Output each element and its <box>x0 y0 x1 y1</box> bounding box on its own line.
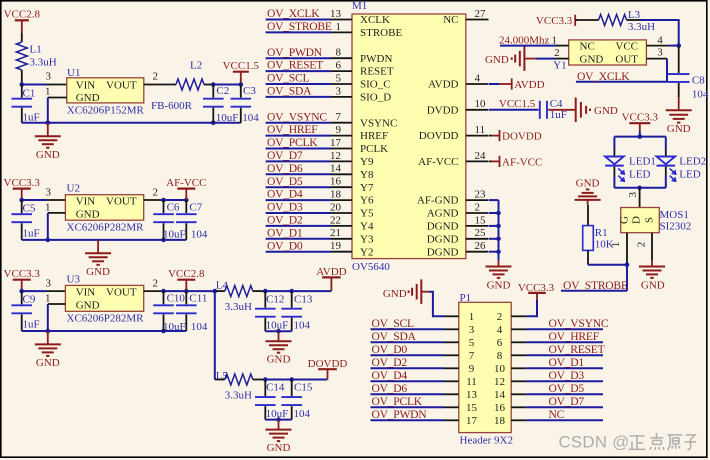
svg-text:OV_RESET: OV_RESET <box>549 343 605 356</box>
svg-text:2: 2 <box>497 311 503 323</box>
svg-text:10uF: 10uF <box>163 321 186 333</box>
svg-text:C10: C10 <box>167 293 186 305</box>
svg-text:OV_D3: OV_D3 <box>267 201 303 214</box>
svg-text:AVDD: AVDD <box>428 79 458 91</box>
svg-text:OV_PWDN: OV_PWDN <box>267 46 323 59</box>
svg-text:15: 15 <box>475 214 487 226</box>
svg-text:U1: U1 <box>67 67 80 79</box>
svg-text:VOUT: VOUT <box>106 195 137 207</box>
svg-text:OV_D5: OV_D5 <box>549 382 585 395</box>
svg-text:3.3uH: 3.3uH <box>628 21 655 33</box>
svg-text:3: 3 <box>627 191 639 197</box>
svg-text:1uF: 1uF <box>23 319 40 331</box>
svg-text:Y6: Y6 <box>360 195 374 207</box>
svg-text:VCC3.3: VCC3.3 <box>4 177 41 189</box>
svg-text:DOVDD: DOVDD <box>502 131 542 143</box>
svg-text:OV_SDA: OV_SDA <box>267 85 312 98</box>
svg-text:9: 9 <box>336 124 342 136</box>
svg-text:OV_SDA: OV_SDA <box>372 330 417 343</box>
svg-text:DGND: DGND <box>427 246 459 258</box>
svg-text:3: 3 <box>46 71 52 83</box>
svg-text:DVDD: DVDD <box>427 104 459 116</box>
svg-text:OV_VSYNC: OV_VSYNC <box>549 317 609 330</box>
svg-text:LED: LED <box>629 169 650 181</box>
svg-text:8: 8 <box>336 47 342 59</box>
svg-text:C5: C5 <box>23 202 36 214</box>
svg-text:10: 10 <box>475 98 487 110</box>
svg-text:5: 5 <box>336 72 342 84</box>
svg-text:STROBE: STROBE <box>360 27 402 39</box>
svg-text:GND: GND <box>267 354 291 366</box>
svg-text:U2: U2 <box>67 183 80 195</box>
svg-text:DOVDD: DOVDD <box>419 130 459 142</box>
svg-text:OV_D7: OV_D7 <box>549 395 585 408</box>
svg-text:1: 1 <box>45 85 51 97</box>
svg-text:M1: M1 <box>352 0 367 12</box>
svg-text:OV_D2: OV_D2 <box>372 356 408 369</box>
svg-text:Header 9X2: Header 9X2 <box>460 435 513 447</box>
svg-text:1uF: 1uF <box>23 228 40 240</box>
svg-text:AF-VCC: AF-VCC <box>502 156 542 168</box>
svg-text:XC6206P152MR: XC6206P152MR <box>67 105 145 117</box>
svg-text:RESET: RESET <box>360 66 394 78</box>
svg-text:4: 4 <box>657 34 663 46</box>
svg-text:GND: GND <box>76 208 100 220</box>
svg-text:GND: GND <box>86 266 110 278</box>
svg-text:6: 6 <box>336 60 342 72</box>
svg-text:VCC2.8: VCC2.8 <box>168 268 205 280</box>
svg-text:OV_D1: OV_D1 <box>549 356 585 369</box>
svg-text:24.000Mhz: 24.000Mhz <box>499 35 550 47</box>
svg-text:AVDD: AVDD <box>316 266 346 278</box>
svg-text:NC: NC <box>580 40 595 52</box>
svg-text:OV5640: OV5640 <box>352 261 390 273</box>
svg-text:OV_XCLK: OV_XCLK <box>267 7 320 20</box>
svg-text:10uF: 10uF <box>216 112 239 124</box>
svg-text:L1: L1 <box>30 44 42 56</box>
svg-text:HREF: HREF <box>360 130 388 142</box>
svg-text:C8: C8 <box>692 74 705 86</box>
svg-text:LED1: LED1 <box>629 156 656 168</box>
svg-text:C9: C9 <box>23 294 36 306</box>
svg-text:AVDD: AVDD <box>514 79 544 91</box>
svg-text:7: 7 <box>469 350 475 362</box>
svg-text:1: 1 <box>469 311 475 323</box>
svg-text:18: 18 <box>494 415 506 427</box>
svg-text:1uF: 1uF <box>23 111 40 123</box>
svg-text:10uF: 10uF <box>163 228 186 240</box>
svg-text:GND: GND <box>36 357 60 369</box>
svg-text:Y4: Y4 <box>360 221 374 233</box>
svg-text:P1: P1 <box>460 292 472 304</box>
svg-text:15: 15 <box>466 402 478 414</box>
svg-text:1: 1 <box>45 293 51 305</box>
svg-text:3.3uH: 3.3uH <box>225 301 252 313</box>
svg-text:OV_STROBE: OV_STROBE <box>267 20 332 33</box>
svg-text:1: 1 <box>45 201 51 213</box>
svg-text:VSYNC: VSYNC <box>360 117 397 129</box>
svg-text:NC: NC <box>549 408 565 421</box>
svg-text:OV_D2: OV_D2 <box>267 214 303 227</box>
svg-text:OV_D6: OV_D6 <box>372 382 408 395</box>
svg-text:OV_D3: OV_D3 <box>549 369 585 382</box>
svg-text:AF-VCC: AF-VCC <box>418 156 458 168</box>
svg-text:9: 9 <box>469 363 475 375</box>
svg-text:104: 104 <box>294 320 311 332</box>
svg-text:OV_XCLK: OV_XCLK <box>577 70 630 83</box>
svg-text:25: 25 <box>475 227 487 239</box>
svg-text:R1: R1 <box>595 227 608 239</box>
svg-text:7: 7 <box>336 111 342 123</box>
svg-text:GND: GND <box>36 149 60 161</box>
svg-text:GND: GND <box>485 54 509 66</box>
svg-text:2: 2 <box>153 278 159 290</box>
svg-text:SIO_C: SIO_C <box>360 79 391 91</box>
svg-text:PWDN: PWDN <box>360 53 392 65</box>
svg-text:1: 1 <box>336 21 342 33</box>
svg-text:2: 2 <box>153 71 159 83</box>
svg-text:OV_PWDN: OV_PWDN <box>372 408 428 421</box>
svg-text:OV_RESET: OV_RESET <box>267 59 323 72</box>
svg-text:GND: GND <box>487 279 511 291</box>
svg-text:17: 17 <box>330 137 342 149</box>
svg-text:104: 104 <box>242 112 259 124</box>
svg-text:VOUT: VOUT <box>106 286 137 298</box>
svg-text:PCLK: PCLK <box>360 143 388 155</box>
svg-text:OV_SCL: OV_SCL <box>372 317 414 330</box>
svg-text:GND: GND <box>594 105 618 117</box>
svg-text:C11: C11 <box>189 293 207 305</box>
svg-text:23: 23 <box>475 189 487 201</box>
svg-text:14: 14 <box>330 163 342 175</box>
svg-text:OV_SCL: OV_SCL <box>267 72 309 85</box>
svg-text:AF-VCC: AF-VCC <box>166 177 206 189</box>
svg-text:C14: C14 <box>266 382 285 394</box>
svg-text:104: 104 <box>191 321 208 333</box>
svg-text:16: 16 <box>494 402 506 414</box>
svg-text:10K: 10K <box>595 239 614 251</box>
svg-text:Y1: Y1 <box>553 60 566 72</box>
svg-text:10: 10 <box>494 363 506 375</box>
svg-text:VIN: VIN <box>76 195 96 207</box>
svg-text:3: 3 <box>336 85 342 97</box>
svg-text:OV_HREF: OV_HREF <box>549 330 600 343</box>
svg-text:Y9: Y9 <box>360 156 374 168</box>
svg-text:4: 4 <box>497 324 503 336</box>
svg-text:OV_D1: OV_D1 <box>267 226 303 239</box>
svg-text:12: 12 <box>330 150 341 162</box>
svg-text:AF-GND: AF-GND <box>417 195 459 207</box>
svg-text:13: 13 <box>466 389 478 401</box>
svg-text:XC6206P282MR: XC6206P282MR <box>67 313 145 325</box>
svg-text:VCC: VCC <box>615 40 638 52</box>
svg-text:1uF: 1uF <box>550 109 567 121</box>
svg-text:OUT: OUT <box>615 53 638 65</box>
svg-text:DGND: DGND <box>427 233 459 245</box>
svg-text:24: 24 <box>475 150 487 162</box>
svg-text:OV_HREF: OV_HREF <box>267 123 318 136</box>
svg-text:LED: LED <box>679 169 700 181</box>
svg-text:C6: C6 <box>167 201 180 213</box>
svg-text:Y8: Y8 <box>360 169 374 181</box>
svg-text:2: 2 <box>554 47 560 59</box>
svg-text:19: 19 <box>330 240 342 252</box>
svg-text:OV_D0: OV_D0 <box>372 343 408 356</box>
svg-text:104: 104 <box>692 89 709 101</box>
svg-text:AGND: AGND <box>427 208 459 220</box>
svg-text:13: 13 <box>330 8 342 20</box>
svg-text:C15: C15 <box>294 382 313 394</box>
svg-text:18: 18 <box>330 189 342 201</box>
svg-text:D: D <box>630 216 642 224</box>
svg-text:5: 5 <box>469 337 475 349</box>
svg-text:20: 20 <box>330 201 342 213</box>
svg-text:Y5: Y5 <box>360 208 374 220</box>
svg-text:11: 11 <box>466 376 477 388</box>
svg-text:GND: GND <box>383 288 407 300</box>
svg-text:OV_STROBE: OV_STROBE <box>563 279 628 292</box>
svg-text:VCC2.8: VCC2.8 <box>4 9 41 21</box>
svg-text:GND: GND <box>576 178 600 190</box>
svg-text:VOUT: VOUT <box>106 79 137 91</box>
svg-text:OV_VSYNC: OV_VSYNC <box>267 110 327 123</box>
svg-text:3: 3 <box>657 46 663 58</box>
svg-text:3: 3 <box>46 187 52 199</box>
svg-text:OV_D0: OV_D0 <box>267 239 303 252</box>
svg-text:GND: GND <box>76 299 100 311</box>
svg-text:OV_D4: OV_D4 <box>267 188 303 201</box>
svg-text:4: 4 <box>475 72 481 84</box>
svg-text:Y3: Y3 <box>360 233 374 245</box>
svg-text:2: 2 <box>475 201 481 213</box>
svg-text:2: 2 <box>153 187 159 199</box>
svg-text:104: 104 <box>294 408 311 420</box>
svg-text:GND: GND <box>667 123 691 135</box>
svg-text:XC6206P282MR: XC6206P282MR <box>67 222 145 234</box>
svg-text:11: 11 <box>475 124 486 136</box>
svg-text:SI2302: SI2302 <box>660 220 692 232</box>
svg-text:G: G <box>618 216 630 224</box>
svg-text:26: 26 <box>475 240 487 252</box>
svg-text:3.3uH: 3.3uH <box>225 390 252 402</box>
svg-text:GND: GND <box>641 279 665 291</box>
svg-text:104: 104 <box>191 228 208 240</box>
svg-text:VIN: VIN <box>76 286 96 298</box>
svg-text:8: 8 <box>497 350 503 362</box>
svg-text:6: 6 <box>497 337 503 349</box>
svg-text:27: 27 <box>475 8 487 20</box>
svg-text:3: 3 <box>469 324 475 336</box>
svg-text:FB-600R: FB-600R <box>151 100 193 112</box>
svg-text:C13: C13 <box>294 293 313 305</box>
svg-text:LED2: LED2 <box>679 156 706 168</box>
svg-text:VCC3.3: VCC3.3 <box>622 112 659 124</box>
svg-text:VCC3.3: VCC3.3 <box>4 268 41 280</box>
svg-text:GND: GND <box>76 92 100 104</box>
svg-text:U3: U3 <box>67 273 81 285</box>
svg-text:1: 1 <box>552 35 558 47</box>
svg-text:OV_D5: OV_D5 <box>267 175 303 188</box>
svg-text:DGND: DGND <box>427 221 459 233</box>
svg-text:OV_PCLK: OV_PCLK <box>267 136 318 149</box>
svg-text:21: 21 <box>330 227 341 239</box>
svg-text:OV_D4: OV_D4 <box>372 369 408 382</box>
svg-text:DOVDD: DOVDD <box>308 358 348 370</box>
svg-text:C7: C7 <box>189 201 202 213</box>
svg-text:3: 3 <box>46 278 52 290</box>
svg-text:14: 14 <box>494 389 506 401</box>
svg-text:12: 12 <box>494 376 505 388</box>
svg-text:VIN: VIN <box>76 79 96 91</box>
svg-text:C12: C12 <box>266 293 284 305</box>
svg-text:VCC3.3: VCC3.3 <box>536 15 573 27</box>
svg-text:Y2: Y2 <box>360 246 373 258</box>
svg-text:C3: C3 <box>243 85 256 97</box>
svg-text:2: 2 <box>635 242 647 248</box>
svg-text:16: 16 <box>330 176 342 188</box>
svg-text:VCC1.5: VCC1.5 <box>499 98 536 110</box>
svg-text:CSDN @: CSDN @ <box>559 433 630 452</box>
svg-text:SIO_D: SIO_D <box>360 92 391 104</box>
svg-text:OV_D7: OV_D7 <box>267 149 303 162</box>
svg-text:MOS1: MOS1 <box>660 209 689 221</box>
svg-text:22: 22 <box>330 214 341 226</box>
svg-text:GND: GND <box>267 442 291 454</box>
svg-text:L2: L2 <box>190 60 202 72</box>
svg-text:OV_D6: OV_D6 <box>267 162 303 175</box>
svg-text:C1: C1 <box>23 87 36 99</box>
svg-text:3.3uH: 3.3uH <box>30 57 57 69</box>
svg-text:17: 17 <box>466 415 478 427</box>
svg-text:GND: GND <box>580 53 604 65</box>
svg-text:C2: C2 <box>216 85 229 97</box>
svg-text:OV_PCLK: OV_PCLK <box>372 395 423 408</box>
svg-text:S: S <box>643 217 655 223</box>
svg-text:Y7: Y7 <box>360 182 374 194</box>
svg-text:NC: NC <box>443 14 458 26</box>
svg-text:XCLK: XCLK <box>360 14 390 26</box>
svg-text:VCC1.5: VCC1.5 <box>223 60 260 72</box>
